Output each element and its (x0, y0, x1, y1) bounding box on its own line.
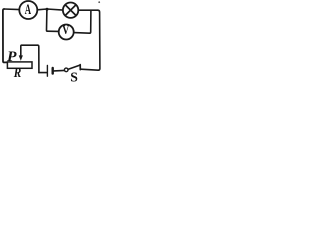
lamp circle (63, 3, 78, 18)
wire right vertical (98, 10, 100, 70)
lamp cross stroke 1 (65, 5, 76, 16)
voltmeter circle (59, 25, 74, 40)
battery short plate (52, 68, 54, 74)
resistor R box (7, 62, 32, 68)
svg-text:R: R (13, 66, 21, 81)
wire voltmeter branch up (90, 10, 91, 33)
battery long plate (46, 65, 48, 76)
wire rheostat right leg up (38, 45, 39, 72)
svg-text:S: S (70, 70, 78, 85)
wire battery left (39, 72, 47, 74)
wire left vertical (3, 9, 4, 62)
lamp cross stroke 2 (65, 5, 76, 16)
wire ammeter to lamp (37, 9, 63, 10)
wire lamp to top-right corner (78, 9, 97, 11)
switch pivot circle (64, 68, 68, 72)
svg-text:A: A (25, 2, 31, 18)
wire switch to bottom-right corner (81, 69, 98, 70)
switch fixed contact (79, 65, 81, 70)
slider arrow head (19, 55, 23, 60)
wire slider arrow shaft (20, 45, 23, 56)
switch lever (68, 65, 80, 69)
wire voltmeter branch horizontal left (47, 30, 58, 32)
wire bottom-left to rheostat (4, 61, 7, 63)
noise speck top right (98, 1, 100, 3)
wire voltmeter branch vertical left (46, 9, 49, 31)
wire battery to switch (54, 69, 64, 72)
ammeter A meter circle (19, 1, 37, 19)
wire voltmeter right (74, 32, 90, 35)
wire top-left horizontal (4, 8, 19, 11)
node junction dot (46, 8, 49, 11)
svg-text:V: V (62, 23, 70, 37)
wire rheostat top horizontal (22, 44, 38, 46)
svg-text:P: P (7, 49, 17, 65)
